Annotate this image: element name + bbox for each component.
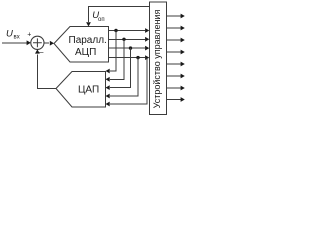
svg-text:оп: оп [98, 17, 105, 23]
wire Uop from control unit to ADC top [89, 7, 150, 23]
wire ADC output bit 1 [109, 30, 146, 32]
output arrow 2 [167, 27, 182, 29]
wire vertical tap 2 to DAC [110, 39, 124, 79]
junction dot node 1 [114, 29, 117, 32]
block DAC [56, 72, 106, 108]
svg-text:ЦАП: ЦАП [78, 85, 99, 96]
wire ADC output bit 2 [109, 38, 146, 40]
label Uvx (input voltage) [6, 29, 20, 41]
output arrow 6 [167, 75, 182, 77]
arrowhead into ADC [50, 41, 54, 46]
junction dot node 4 [136, 56, 139, 59]
block control unit [150, 2, 167, 115]
svg-text:+: + [27, 31, 31, 38]
svg-text:Устройство управления: Устройство управления [152, 10, 162, 109]
svg-text:вх: вх [14, 35, 20, 41]
output arrow 8 [167, 99, 182, 101]
wire DAC feedback to summer [37, 55, 56, 89]
junction dot node 3 [129, 46, 132, 49]
wire vertical tap 1 to DAC [110, 31, 116, 72]
svg-text:U: U [6, 29, 13, 40]
arrowhead into summer [27, 40, 31, 45]
wire ADC output bit 4 [109, 57, 146, 59]
arrowhead down into ADC top [86, 22, 91, 26]
wire summer to ADC [44, 42, 49, 44]
wire vertical tap 3 to DAC [110, 48, 131, 88]
summing junction S1 [31, 36, 44, 49]
svg-text:–: – [39, 48, 44, 57]
output arrow 3 [167, 39, 182, 41]
plus sign inside summer [33, 38, 42, 47]
arrowhead up into summer [35, 49, 40, 53]
output arrow 7 [167, 87, 182, 89]
output arrow 1 [167, 15, 182, 17]
wire input Uvx to summer [2, 42, 27, 44]
wire ADC output bit 3 [109, 47, 146, 49]
svg-text:Паралл.: Паралл. [69, 35, 107, 46]
block ADC (Parallel ADC) [54, 27, 109, 63]
label Uop [92, 10, 104, 23]
wire vertical tap 4 to DAC [110, 58, 138, 96]
output arrow 4 [167, 51, 182, 53]
output arrow 5 [167, 63, 182, 65]
junction dot node 2 [122, 38, 125, 41]
svg-text:АЦП: АЦП [75, 47, 96, 58]
wire vertical tap 5 (from control unit) to DAC [110, 58, 147, 104]
